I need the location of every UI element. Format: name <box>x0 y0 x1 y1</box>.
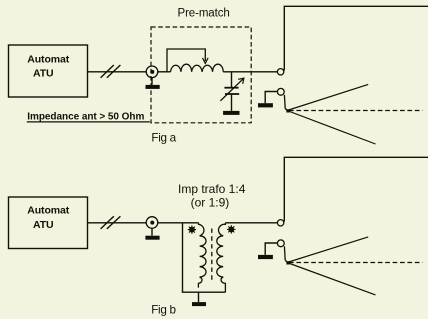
wire: ground post to ground symbol (Fig a) <box>265 92 277 104</box>
wire: ground post to ground symbol (Fig b) <box>265 243 277 255</box>
radial wire upper (Fig b) <box>287 237 368 263</box>
terminal: antenna post circle (Fig b) <box>277 220 283 226</box>
junction dot at radials vertex (Fig b) <box>286 261 289 264</box>
ground below transformer (Fig b) <box>192 292 206 306</box>
node: feed point circle with centre dot (Fig a) <box>146 66 158 78</box>
terminal: antenna post circle (Fig a) <box>277 69 283 75</box>
wire: ATU output to feed node (Fig a) <box>88 71 146 73</box>
dashed enclosure: Pre-match box <box>151 27 251 123</box>
svg-text:(or 1:9): (or 1:9) <box>191 195 230 209</box>
svg-text:Fig a: Fig a <box>151 132 176 145</box>
junction dot at radials vertex (Fig a) <box>286 109 289 112</box>
svg-text:Fig b: Fig b <box>151 303 176 316</box>
transmission-line slashes (Fig b) <box>101 216 121 229</box>
svg-text:ATU: ATU <box>33 68 54 80</box>
box U2: Automat ATU (Fig b) <box>9 197 88 249</box>
label: Impedance ant > 50 Ohm (underlined) <box>27 112 150 123</box>
radial wire lower (Fig b) <box>287 263 376 295</box>
ground below capacitor (Fig a) <box>223 111 239 115</box>
node: feed point circle with centre dot (Fig b) <box>146 217 158 229</box>
svg-text:Automat: Automat <box>27 205 69 217</box>
transformer T1 secondary winding <box>217 223 226 292</box>
ground at antenna feed (Fig b) <box>258 255 273 259</box>
wire: transformer secondary to antenna terminal (Fig b) <box>225 222 277 224</box>
variable capacitor C1 (Fig a) <box>220 72 244 111</box>
radial wire middle dashed (Fig a) <box>289 110 423 112</box>
ground at feed node (Fig a) <box>146 78 160 89</box>
transformer T1 core (dashed) <box>211 229 213 282</box>
svg-text:Automat: Automat <box>27 53 69 65</box>
wire: inductor to antenna terminal through capacitor tap (Fig a) <box>223 71 277 73</box>
wire: transformer bottom return (Fig b) <box>182 291 226 293</box>
ground at feed node (Fig b) <box>145 228 159 239</box>
wire: ground post to radials vertex (Fig b) <box>284 246 287 262</box>
radial wire upper (Fig a) <box>287 84 368 110</box>
transmission-line slashes (Fig a) <box>101 65 121 78</box>
radial wire middle dashed (Fig b) <box>289 262 423 264</box>
variable inductor L1 (Fig a) <box>171 64 224 72</box>
terminal: ground post circle (Fig b) <box>277 240 284 247</box>
phase dot: secondary (Fig b) <box>227 225 235 233</box>
antenna lead wire up and to the right (Fig a) <box>284 6 428 70</box>
svg-text:Impedance ant > 50 Ohm: Impedance ant > 50 Ohm <box>27 112 144 123</box>
wire: node to transformer primary (Fig b) <box>158 222 199 224</box>
label: Automat ATU (Fig a) <box>27 53 69 79</box>
svg-text:Pre-match: Pre-match <box>178 8 230 20</box>
wire: ground post to radials vertex (Fig a) <box>284 95 287 111</box>
ground at antenna feed (Fig a) <box>258 103 273 107</box>
tap bracket with down arrow over inductor (Fig a) <box>167 49 208 72</box>
antenna lead wire up and to the right (Fig b) <box>284 157 428 221</box>
radial wire lower (Fig a) <box>287 111 376 145</box>
wire: ATU output to feed node (Fig b) <box>88 222 146 224</box>
transformer T1 primary winding <box>198 223 206 288</box>
wire: node to inductor (Fig a) <box>158 71 171 73</box>
svg-text:ATU: ATU <box>33 219 54 231</box>
box U1: Automat ATU (Fig a) <box>9 45 88 97</box>
svg-text:Imp trafo 1:4: Imp trafo 1:4 <box>178 182 246 196</box>
label: Automat ATU (Fig b) <box>27 205 69 231</box>
phase dot: primary (Fig b) <box>188 225 196 233</box>
wire: shunt down-lead from feed wire (Fig b) <box>182 223 184 292</box>
terminal: ground post circle (Fig a) <box>277 88 284 95</box>
label: Imp trafo 1:4 (or 1:9) <box>178 182 246 209</box>
